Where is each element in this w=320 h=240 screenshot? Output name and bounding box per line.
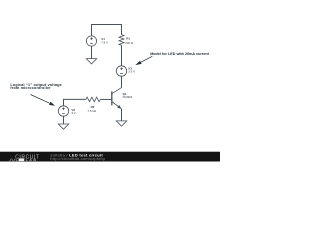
resistor R1 (119, 35, 124, 46)
wire V2 bottom to ground (63, 116, 65, 124)
svg-text:2N3904: 2N3904 (123, 95, 133, 99)
wire V2 top to R2 left (64, 99, 86, 105)
CircuitLab logo waveform (9, 159, 18, 161)
wire top net V1 to R1 (92, 25, 122, 36)
svg-text:from microcontroller: from microcontroller (10, 86, 51, 90)
annotation arrow to V3 (135, 56, 152, 65)
voltage source V2 (58, 106, 68, 116)
ground (below Q1) (116, 121, 126, 126)
resistor R2 (86, 97, 100, 102)
wire V1 bottom to ground (91, 46, 93, 59)
svg-text:3 V: 3 V (71, 111, 75, 115)
wire R1 bottom to V3 top (121, 45, 123, 66)
svg-text:Model for LED with 20mA curren: Model for LED with 20mA current (150, 52, 209, 56)
Q1 emitter arrowhead (117, 105, 121, 109)
voltage source V3 (116, 66, 126, 76)
ground (below V2) (58, 124, 68, 129)
CircuitLab logo LAB block (19, 158, 25, 161)
svg-text:7.8 V: 7.8 V (101, 41, 108, 45)
wire V3 bottom to Q1 collector (121, 76, 123, 87)
voltage source V1 (86, 36, 96, 46)
wire Q1 emitter to ground (121, 109, 123, 121)
svg-text:LAB: LAB (26, 158, 38, 162)
svg-text:200 Ω: 200 Ω (125, 41, 134, 45)
svg-text:http://circuitlab.com/czpkrby: http://circuitlab.com/czpkrby (50, 156, 105, 161)
svg-text:3.6 V: 3.6 V (128, 70, 135, 74)
ground (below V1) (86, 59, 96, 64)
annotation: Logical 1 output voltage from microcontroller (10, 83, 62, 90)
annotation arrow to V2 (31, 95, 56, 106)
footer bar (0, 152, 220, 162)
transistor Q1 (112, 88, 122, 109)
wire R2 right to Q1 base (100, 98, 112, 100)
svg-text:7.5 kΩ: 7.5 kΩ (87, 109, 97, 113)
